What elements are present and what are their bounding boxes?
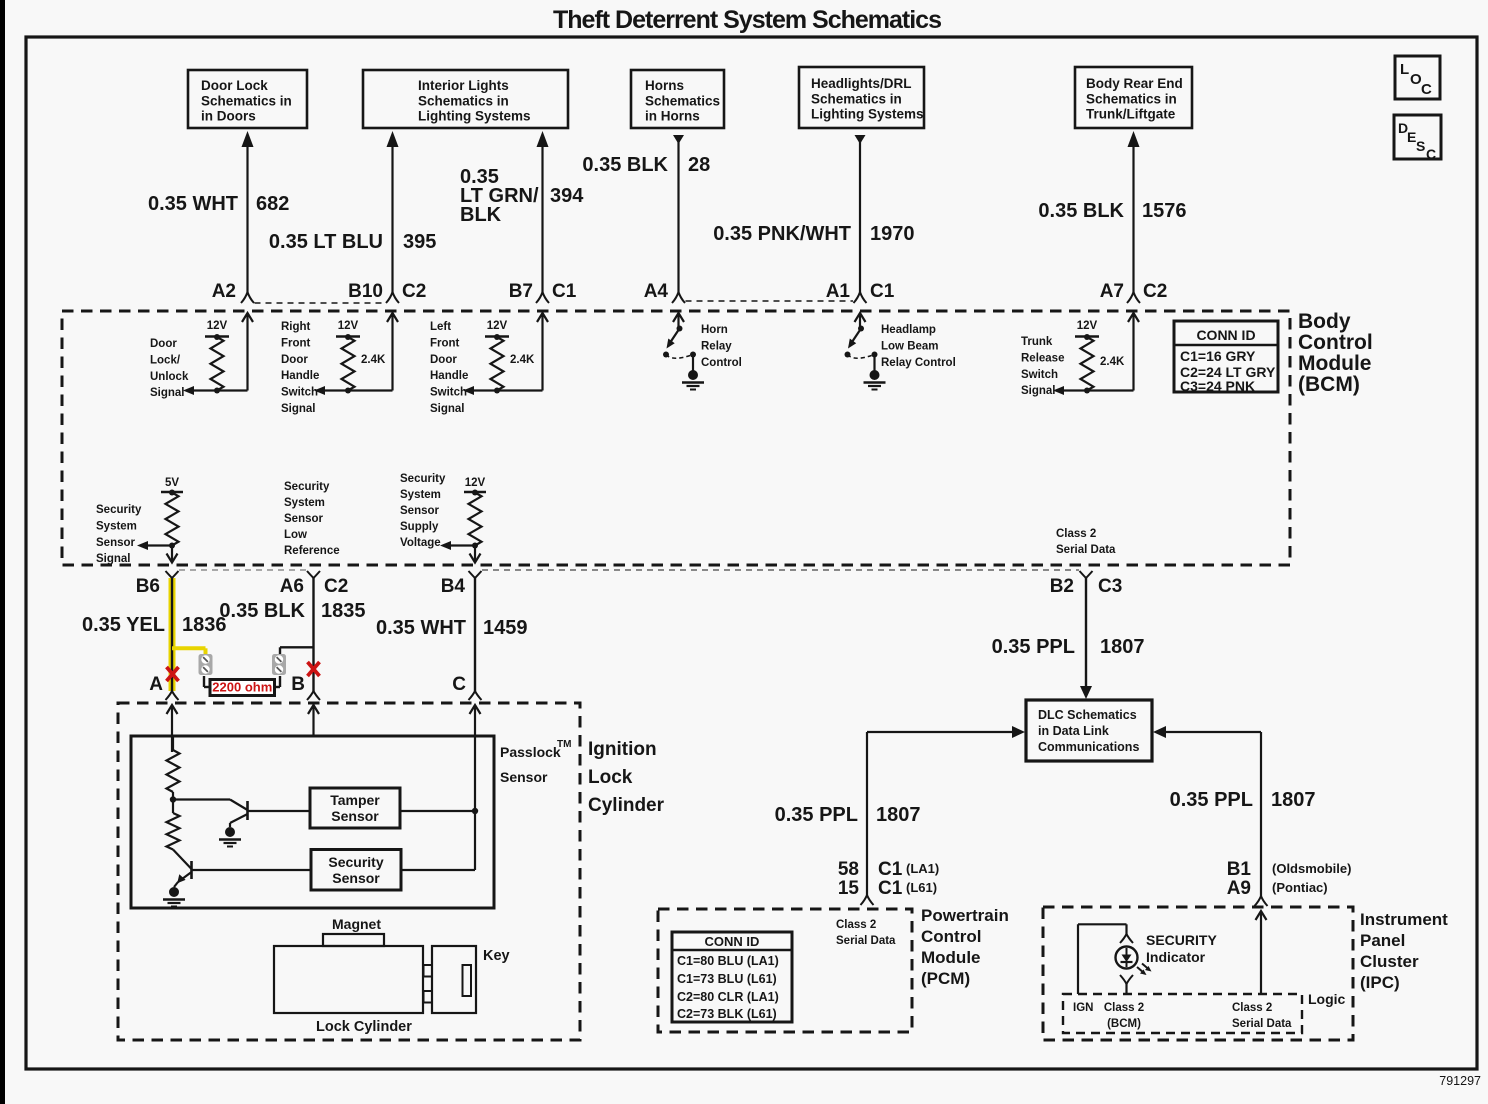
svg-text:12V: 12V [465,477,486,489]
BCM block: Trunk Release Switch Signal 2.4K resistor [1021,313,1139,397]
IPC dashed box [1043,907,1353,1040]
svg-text:0.35 WHT: 0.35 WHT [376,617,466,639]
label Class 2 Serial Data (PCM) [836,919,896,947]
svg-text:B10: B10 [348,281,383,302]
label Class 2 Serial Data (IPC) [1232,1002,1292,1030]
label 0.35 WHT [148,193,238,215]
svg-text:12V: 12V [487,320,508,332]
pin label B4 [441,576,466,597]
svg-text:Lock/: Lock/ [150,354,181,366]
svg-text:0.35 WHT: 0.35 WHT [148,193,238,215]
svg-text:Serial Data: Serial Data [836,935,896,947]
wire W3 to Interior Lights box (0.35 LT GRN/BLK 394) [536,131,549,303]
Tamper Sensor box [310,788,400,828]
label 394 [550,185,584,207]
svg-text:0.35 BLK: 0.35 BLK [1038,200,1124,222]
label (Pontiac) [1272,880,1328,895]
connector fork C [469,691,482,700]
svg-text:Schematics in: Schematics in [201,93,292,108]
pin label B10 [348,281,383,302]
svg-text:B4: B4 [441,576,466,597]
svg-text:C1=16 GRY: C1=16 GRY [1180,348,1256,364]
wire B4-C 0.35 WHT 1459 [474,578,476,691]
svg-text:Security: Security [96,504,142,516]
svg-text:C: C [1426,146,1436,162]
svg-text:Signal: Signal [1021,385,1056,397]
svg-text:Sensor: Sensor [284,513,324,525]
label 1807 (B2) [1100,636,1145,658]
svg-text:C1=73 BLU (L61): C1=73 BLU (L61) [677,972,777,986]
svg-text:B7: B7 [509,281,533,302]
svg-text:Schematics in: Schematics in [418,93,509,108]
PCM CONN ID table [672,932,792,1022]
pin label A2 [212,281,236,302]
pin label 58 [838,859,859,880]
svg-text:Control: Control [1298,331,1373,354]
transistor Q1 emitter [230,814,248,827]
svg-text:Trunk/Liftgate: Trunk/Liftgate [1086,107,1176,122]
svg-text:58: 58 [838,859,859,880]
svg-text:Lighting Systems: Lighting Systems [418,109,531,124]
svg-text:CONN ID: CONN ID [705,934,760,949]
svg-text:Supply: Supply [400,521,439,533]
svg-text:1970: 1970 [870,223,915,245]
svg-text:12V: 12V [207,320,228,332]
wire PCM to DLC [867,726,1025,895]
scanner black edge strip left [0,0,5,1104]
svg-text:Class 2: Class 2 [1056,528,1096,540]
Passlock sensor box [131,736,494,908]
svg-text:Front: Front [281,337,311,349]
wire W6 to Body Rear End box (0.35 BLK 1576) [1127,131,1140,303]
connector fork B2/C3 [1080,571,1093,578]
svg-text:Security: Security [328,854,383,870]
label 1807 (PCM) [876,804,921,826]
label 0.35 LT GRN/BLK [460,166,539,226]
svg-text:Headlights/DRL: Headlights/DRL [811,76,912,91]
pin label C2 (A6) [324,576,348,597]
BCM block: Door Lock/Unlock Signal resistor to 12V [150,313,253,399]
ILC entry arrow A [167,705,178,752]
label Class 2 (BCM) [1104,1002,1144,1030]
connector face dash A2-B10 [255,302,386,304]
wire Security to C line [401,869,475,871]
connector face dash A4-A1 [686,300,854,302]
svg-text:Switch: Switch [430,387,467,399]
svg-text:Sensor: Sensor [400,505,440,517]
svg-text:(Pontiac): (Pontiac) [1272,880,1328,895]
box: Headlights/DRL Schematics in Lighting Systems [799,67,924,128]
svg-text:Signal: Signal [430,403,465,415]
label Powertrain Control Module (PCM) [921,906,1009,988]
connector fork PCM [861,895,874,905]
svg-text:A1: A1 [826,281,851,302]
2200 ohm resistor box [210,680,275,696]
svg-text:Signal: Signal [96,553,131,565]
wire B2 to DLC (0.35 PPL 1807) [1080,578,1092,699]
pin label B7 [509,281,533,302]
svg-text:C2: C2 [1143,281,1167,302]
svg-text:Sensor: Sensor [96,537,136,549]
svg-text:C1: C1 [878,859,903,880]
LED light rays [1137,964,1152,976]
label 682 [256,193,289,215]
svg-text:Communications: Communications [1038,740,1139,754]
pin label C1 (A1) [870,281,895,302]
svg-text:(IPC): (IPC) [1360,973,1400,992]
connector fork B6 [166,571,179,578]
label Headlamp Low Beam Relay Control [881,324,956,369]
label Body Control Module (BCM) [1298,310,1373,396]
svg-text:791297: 791297 [1439,1074,1481,1088]
svg-text:(L61): (L61) [906,880,937,895]
svg-text:Class 2: Class 2 [1104,1002,1144,1014]
BCM CONN ID table [1174,321,1278,394]
svg-text:Lighting Systems: Lighting Systems [811,107,924,122]
transistor Q2 collector [192,869,312,871]
label 0.35 WHT (B4) [376,617,466,639]
transistor Q2 base link [173,850,192,870]
transistor Q1 base link [173,800,248,811]
Magnet box [323,916,384,946]
svg-text:Serial Data: Serial Data [1232,1018,1292,1030]
svg-text:1807: 1807 [1100,636,1145,658]
svg-text:C3=24 PNK: C3=24 PNK [1180,378,1255,394]
svg-text:Sensor: Sensor [331,808,379,824]
svg-text:12V: 12V [338,320,359,332]
svg-text:in Doors: in Doors [201,109,256,124]
svg-text:Panel: Panel [1360,931,1405,950]
svg-text:12V: 12V [1077,320,1098,332]
svg-text:B2: B2 [1050,576,1074,597]
Logic dashed box [1063,994,1302,1033]
label Horn Relay Control [701,324,742,369]
pin label 15 [838,878,860,899]
svg-text:E: E [1407,129,1416,145]
svg-text:Control: Control [921,927,981,946]
svg-text:(Oldsmobile): (Oldsmobile) [1272,861,1351,876]
svg-text:Instrument: Instrument [1360,910,1448,929]
ILC entry arrow B [308,705,319,736]
cut mark X on B wire [308,662,320,676]
svg-text:Trunk: Trunk [1021,336,1053,348]
svg-text:(BCM): (BCM) [1107,1018,1141,1030]
svg-text:Reference: Reference [284,545,340,557]
svg-text:Cylinder: Cylinder [588,795,665,816]
svg-text:2200 ohm: 2200 ohm [212,680,272,695]
svg-text:Signal: Signal [281,403,316,415]
wire C inside passlock [474,736,476,870]
box: Interior Lights Schematics in Lighting Systems [363,70,568,128]
pin label A4 [644,281,669,302]
bypass wiring to 2200 ohm resistor box [204,676,280,687]
svg-text:Module: Module [1298,352,1372,375]
svg-text:Release: Release [1021,352,1064,364]
svg-text:0.35 YEL: 0.35 YEL [82,614,165,636]
svg-text:2.4K: 2.4K [510,354,535,366]
svg-text:Low Beam: Low Beam [881,341,939,353]
svg-text:System: System [400,489,441,501]
svg-text:TM: TM [557,739,571,750]
svg-text:Schematics in: Schematics in [811,91,902,106]
cut mark X on A wire [167,667,179,681]
BCM module dashed boundary [62,311,1290,565]
svg-text:Control: Control [701,357,742,369]
passlock resistor R1 [167,750,180,792]
pin label C2 (A7) [1143,281,1167,302]
svg-text:Signal: Signal [150,387,185,399]
IPC entry arrow A9 [1256,911,1267,994]
svg-text:C1: C1 [870,281,895,302]
svg-text:C2: C2 [402,281,426,302]
connector fork indicator top [1120,934,1133,943]
pin label B2 [1050,576,1074,597]
label 1807 (IPC) [1271,789,1316,811]
label SECURITY Indicator [1146,932,1217,965]
label Passlock TM Sensor [500,739,571,785]
svg-text:Low: Low [284,529,307,541]
svg-text:IGN: IGN [1073,1002,1093,1014]
svg-text:DLC Schematics: DLC Schematics [1038,708,1137,722]
svg-text:Sensor: Sensor [500,769,548,785]
pin label C3 [1098,576,1122,597]
svg-text:Front: Front [430,337,460,349]
transistor Q1 bar [246,801,249,820]
connector fork indicator bottom [1120,975,1133,994]
wire R1 top stub [172,736,174,750]
svg-text:Switch: Switch [281,387,318,399]
svg-text:Horns: Horns [645,78,684,93]
svg-text:Handle: Handle [281,370,319,382]
svg-text:Horn: Horn [701,324,728,336]
svg-text:Body: Body [1298,310,1351,333]
svg-text:Powertrain: Powertrain [921,906,1009,925]
label Class 2 Serial Data (BCM) [1056,528,1116,556]
svg-text:C2=80 CLR (LA1): C2=80 CLR (LA1) [677,990,779,1004]
svg-text:Security: Security [284,481,330,493]
svg-text:Door: Door [281,354,308,366]
svg-text:S: S [1416,138,1425,154]
label 28 [688,154,710,176]
document number 791297 [1439,1074,1481,1088]
svg-text:A4: A4 [644,281,669,302]
Lock Cylinder box [274,946,423,1035]
SECURITY indicator LED circle [1116,947,1138,969]
DESC button [1394,115,1441,162]
label 1835 [321,600,366,622]
svg-text:in Data Link: in Data Link [1038,724,1109,738]
bypass connector left (gray) [199,654,213,675]
wire W4 to Horns box (0.35 BLK 28) [672,135,685,303]
Security Sensor box [311,850,401,891]
svg-text:Class 2: Class 2 [1232,1002,1272,1014]
svg-text:Class 2: Class 2 [836,919,876,931]
svg-text:1576: 1576 [1142,200,1187,222]
label 0.35 PPL (PCM) [775,804,858,826]
svg-text:0.35 LT BLU: 0.35 LT BLU [269,231,383,253]
pin label C1 (L61) [878,878,937,899]
pin label C [452,674,466,695]
ILC entry arrow C [470,705,481,736]
wire A6-B black 0.35 BLK 1835 [280,578,314,691]
BCM block: Security System Sensor Signal 5V resistor [137,477,183,563]
svg-text:1807: 1807 [876,804,921,826]
label 1576 [1142,200,1187,222]
svg-text:in Horns: in Horns [645,109,700,124]
LOC button [1395,56,1440,99]
svg-text:Lock Cylinder: Lock Cylinder [316,1019,412,1035]
bypass connector right (gray) [272,654,286,675]
svg-text:0.35 PPL: 0.35 PPL [1170,789,1253,811]
label 0.35 LT BLU [269,231,383,253]
label 0.35 YEL [82,614,165,636]
pin label A [149,674,163,695]
pin label C1 (B7) [552,281,577,302]
svg-text:Door: Door [430,354,457,366]
svg-text:0.35 BLK: 0.35 BLK [219,600,305,622]
label 0.35 PPL (B2) [992,636,1075,658]
label (Oldsmobile) [1272,861,1351,876]
pin label A1 [826,281,851,302]
svg-text:Switch: Switch [1021,369,1058,381]
label Security System Sensor Low Reference [284,481,340,557]
svg-text:0.35 BLK: 0.35 BLK [582,154,668,176]
svg-text:Interior Lights: Interior Lights [418,78,509,93]
connector fork B [307,691,320,700]
svg-text:15: 15 [838,878,860,899]
label Security System Sensor Signal [96,504,142,565]
node junction dot [170,792,176,813]
svg-text:Logic: Logic [1308,991,1346,1007]
PCM dashed box [658,909,912,1032]
svg-text:Key: Key [483,948,510,964]
svg-text:(LA1): (LA1) [906,861,939,876]
svg-text:Body Rear End: Body Rear End [1086,76,1183,91]
pin label C1 (LA1) [878,859,939,880]
svg-text:Cluster: Cluster [1360,952,1419,971]
svg-text:C1=80 BLU (LA1): C1=80 BLU (LA1) [677,954,779,968]
svg-text:C: C [452,674,466,695]
svg-text:A2: A2 [212,281,236,302]
connector fork A [166,691,179,700]
svg-text:Right: Right [281,321,311,333]
svg-text:System: System [96,521,137,533]
label 395 [403,231,436,253]
pin label C2 (top) [402,281,426,302]
key coupling blocks [424,965,433,1003]
transistor Q2 emitter [174,872,192,887]
svg-text:SECURITY: SECURITY [1146,932,1217,948]
label IGN [1073,1002,1093,1014]
BCM block: Right Front Door Handle Switch Signal 2.4K resistor [281,313,398,415]
svg-text:C1: C1 [878,878,903,899]
svg-text:Headlamp: Headlamp [881,324,936,336]
connector face dash B6-A6 [179,569,307,571]
wire W2 to Interior Lights box (0.35 LT BLU 395) [386,131,399,303]
label 1459 [483,617,528,639]
pin label B6 [136,576,160,597]
transistor Q1 collector [248,810,311,812]
svg-text:A7: A7 [1100,281,1124,302]
svg-text:Indicator: Indicator [1146,949,1206,965]
svg-text:B1: B1 [1227,859,1252,880]
svg-text:2.4K: 2.4K [1100,356,1125,368]
svg-text:BLK: BLK [460,204,502,226]
label 1970 [870,223,915,245]
box: Body Rear End Schematics in Trunk/Liftgate [1075,67,1192,128]
box: Horns Schematics in Horns [631,70,724,128]
connector fork IPC A9 [1255,896,1268,906]
connector fork B4 [469,571,482,578]
label 0.35 PNK/WHT [713,223,851,245]
switch: Headlamp Low Beam Relay Control [845,313,886,390]
svg-text:Module: Module [921,948,981,967]
pin label B1 [1227,859,1252,880]
svg-text:(PCM): (PCM) [921,969,970,988]
svg-text:Unlock: Unlock [150,371,189,383]
svg-text:5V: 5V [165,477,179,489]
svg-text:Schematics: Schematics [645,93,720,108]
svg-text:CONN ID: CONN ID [1196,327,1255,343]
svg-text:A9: A9 [1227,878,1251,899]
svg-text:Lock: Lock [588,767,633,788]
svg-text:28: 28 [688,154,710,176]
svg-text:0.35 PPL: 0.35 PPL [992,636,1075,658]
pin label A7 [1100,281,1124,302]
svg-text:A6: A6 [280,576,304,597]
svg-text:C3: C3 [1098,576,1122,597]
switch: Horn Relay Control [663,313,704,390]
svg-text:Serial Data: Serial Data [1056,544,1116,556]
pin label A9 [1227,878,1251,899]
svg-text:Passlock: Passlock [500,744,561,760]
svg-text:L: L [1400,61,1409,78]
svg-text:Handle: Handle [430,370,468,382]
wire W1 to Door Lock box (0.35 WHT 682) [241,131,254,303]
svg-text:2.4K: 2.4K [361,354,386,366]
svg-text:Tamper: Tamper [330,792,380,808]
label Instrument Panel Cluster (IPC) [1360,910,1448,992]
pin label B [291,674,305,695]
svg-text:B6: B6 [136,576,160,597]
svg-text:C2=73 BLK (L61): C2=73 BLK (L61) [677,1007,777,1021]
wire IGN to indicator [1078,924,1127,994]
svg-text:B: B [291,674,305,695]
svg-text:Security: Security [400,473,446,485]
svg-text:394: 394 [550,185,584,207]
connector fork A6/C2 [307,571,320,578]
svg-text:0.35 PPL: 0.35 PPL [775,804,858,826]
svg-text:C: C [1421,81,1432,98]
svg-text:C1: C1 [552,281,577,302]
label 0.35 BLK (A6) [219,600,305,622]
label Security System Sensor Supply Voltage [400,473,446,549]
ground at Q1 [219,827,241,847]
BCM block: Left Front Door Handle Switch Signal 2.4K resistor [430,313,548,415]
svg-text:Ignition: Ignition [588,739,657,760]
BCM block: Security System Sensor Supply Voltage 12V resistor [440,477,486,563]
svg-text:A: A [149,674,163,695]
title Theft Deterrent System Schematics [553,6,941,34]
label 1836 [182,614,227,636]
svg-text:Theft Deterrent System Schemat: Theft Deterrent System Schematics [553,6,941,34]
svg-text:0.35 PNK/WHT: 0.35 PNK/WHT [713,223,851,245]
DLC Schematics box [1026,700,1152,761]
box: Door Lock Schematics in in Doors [188,70,307,128]
svg-text:Relay Control: Relay Control [881,357,956,369]
svg-text:Voltage: Voltage [400,537,441,549]
svg-text:Left: Left [430,321,451,333]
